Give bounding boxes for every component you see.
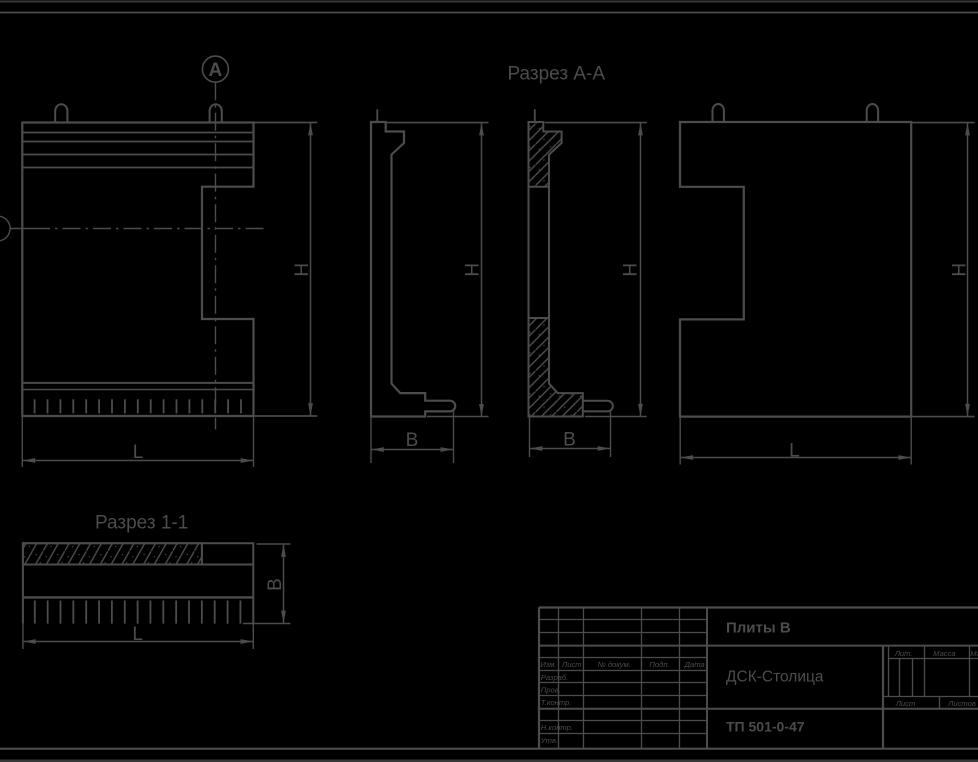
svg-text:H: H [292,263,313,277]
view3 B dimension [530,411,611,458]
svg-text:ДСК-Столица: ДСК-Столица [726,668,824,685]
svg-text:Масса: Масса [933,649,955,658]
view3 wall edges through notch region [528,187,530,318]
view5 B dimension [243,544,291,624]
view3 H dim arrow bottom [638,404,643,417]
title block right section divider [882,646,884,749]
sheet outer bottom edge [0,759,978,762]
title block small labels [540,649,978,745]
svg-text:B: B [406,430,419,451]
title block outer left edge [538,607,540,748]
view5 B dim arrow top [281,544,286,557]
view4 L dim arrow left [681,455,694,460]
view5 serration ticks [35,601,241,624]
view2 B dim arrow right [441,447,454,452]
view4 lifting loop left [713,104,724,122]
drawing frame bottom line [0,748,978,750]
svg-text:Разраб.: Разраб. [541,673,568,682]
svg-text:Т.контр.: Т.контр. [541,698,572,707]
view2 loop edge tick [376,109,378,122]
view1 lifting loop left [55,104,67,122]
view5 band line [23,564,253,566]
view1 L dim arrow right [241,458,254,463]
svg-text:H: H [621,263,642,277]
view1 H dim arrow bottom [308,403,313,416]
view3 H dim arrow top [638,123,643,135]
svg-text:№ докум.: № докум. [597,660,630,669]
view1 bottom band lines [22,382,253,384]
svg-text:Утв.: Утв. [540,736,558,745]
view4 H dim arrow top [965,123,970,135]
view5 L dim arrow right [241,639,254,644]
svg-text:L: L [789,440,800,461]
svg-text:B: B [265,578,286,591]
view1 centerline circle marker (cut off at sheet edge) [0,216,10,241]
svg-text:Масштаб: Масштаб [970,649,978,658]
view5 L dim arrow left [23,639,36,644]
svg-text:Н.контр.: Н.контр. [541,723,573,732]
view5 L dimension [23,624,253,649]
view2 B dim arrow left [371,447,384,452]
title block lit/mass/scale sub-table [883,646,978,709]
svg-text:Пров.: Пров. [541,685,561,694]
svg-text:Разрез А-А: Разрез А-А [508,64,606,85]
svg-text:ТП 501-0-47: ТП 501-0-47 [726,719,805,735]
view5 hatched strip [23,543,202,564]
title block main horizontal separator 1 [539,645,978,647]
view3 B dim arrow left [530,446,543,451]
title block big cell divider [706,607,708,748]
view5 B dim arrow bottom [281,611,286,624]
svg-text:B: B [563,430,576,451]
title block thin row lines [539,620,707,734]
view1 horizontal centerline [10,228,51,230]
view1 top band lines [22,132,253,134]
svg-text:Лист: Лист [895,699,916,708]
view1 H dimension [254,123,318,417]
view1 H dim arrow top [308,123,313,136]
drawing frame top line [0,12,978,14]
view4 lifting loop right [867,104,878,122]
view5 plate outline [23,543,253,624]
view4 outline with left-side notch [680,122,911,417]
view2 H dim arrow bottom [479,404,484,417]
svg-text:H: H [463,263,484,277]
svg-text:L: L [133,442,144,463]
view1 section cut line A [215,82,217,429]
view1 lifting loop right [210,104,222,122]
svg-text:Разрез 1-1: Разрез 1-1 [95,513,188,534]
view4 L dimension [680,417,911,465]
view3 hatched bottom L-shape [529,318,583,417]
title block top edge [539,606,978,608]
view3 H dimension [545,123,647,417]
view4 H dimension [911,123,974,417]
view1 bottom serration ticks [35,399,241,413]
view2 H dimension [387,123,489,417]
svg-text:Изм.: Изм. [540,660,556,669]
view5 hatch boundary line [201,543,203,564]
svg-text:L: L [132,624,143,645]
view4 H dim arrow bottom [965,404,970,417]
view4 L dim arrow right [898,455,911,460]
svg-text:H: H [950,263,971,277]
svg-text:Плиты В: Плиты В [726,620,791,637]
view2 H dim arrow top [479,123,484,135]
view1 section marker circle A [202,56,228,82]
view2 B dimension [371,411,454,464]
sheet outer top edge [0,1,978,3]
svg-text:А: А [209,60,223,81]
svg-text:Дата: Дата [684,660,705,669]
title block main horizontal separator 2 [539,708,978,710]
view3 B dim arrow right [598,446,611,451]
svg-text:Лит.: Лит. [894,649,913,658]
view1 outline with right-side notch [22,123,253,417]
svg-text:Лист: Лист [561,660,582,669]
svg-text:Листов: Листов [947,699,976,708]
view1 L dim arrow left [23,458,35,463]
view3 loop edge tick [534,109,536,122]
svg-text:Подп.: Подп. [649,660,669,669]
view3 toe rib [583,401,613,412]
view5 lower band line [23,596,253,598]
title block thin column lines [559,607,680,748]
view2 profile outline [371,122,455,417]
view1 L dimension [22,416,253,467]
view3 hatched top band [529,122,562,187]
